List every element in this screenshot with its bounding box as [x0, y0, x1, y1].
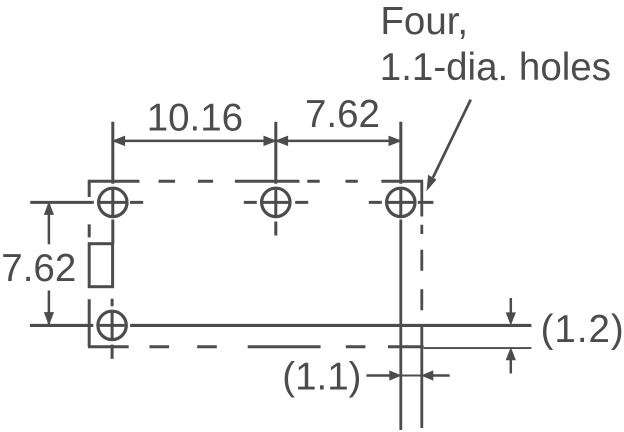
terminal row line (through hole H4) [30, 324, 531, 327]
svg-text:7.62: 7.62 [1, 247, 76, 290]
outline left edge (dashed) [88, 180, 91, 347]
coil polarity rectangle marker [89, 244, 112, 287]
dimension 7.62 (top) [276, 136, 401, 145]
dimension 7.62 (left) [45, 202, 54, 324]
right edge extension line [420, 326, 423, 428]
outline top edge (dashed) [89, 180, 422, 183]
outline right edge (dashed) [420, 180, 423, 311]
hole H3 centerline extended down [399, 220, 402, 431]
leader line to hole note [427, 100, 471, 190]
dimension 10.16 [113, 136, 276, 145]
bottom edge thin extension line [424, 347, 532, 349]
svg-text:1.1-dia. holes: 1.1-dia. holes [380, 46, 611, 89]
dimension (1.1) [366, 371, 449, 380]
svg-text:7.62: 7.62 [305, 93, 380, 136]
hole H2 (top-middle) [244, 122, 308, 236]
hole H3 (top-right) [369, 122, 434, 217]
svg-text:(1.2): (1.2) [541, 308, 624, 351]
svg-text:Four,: Four, [380, 0, 468, 43]
hole H4 (bottom-left) [98, 299, 126, 359]
dimension (1.2) [506, 298, 515, 374]
svg-text:(1.1): (1.1) [282, 356, 361, 399]
svg-text:10.16: 10.16 [147, 97, 243, 140]
outline bottom edge (dashed) [88, 345, 424, 348]
hole H1 (top-left) [30, 122, 143, 244]
